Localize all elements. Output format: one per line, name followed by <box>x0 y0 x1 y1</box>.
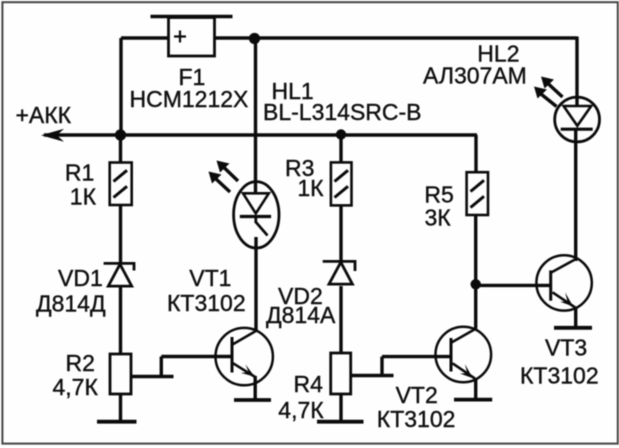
wire R4 to ground <box>339 394 342 421</box>
wire +AKK bus <box>44 133 477 136</box>
svg-text:VD1: VD1 <box>58 265 103 291</box>
svg-text:VT3: VT3 <box>545 335 587 361</box>
wire VT2 emitter to ground <box>474 378 477 398</box>
resistor R3 hatch marks <box>335 170 349 197</box>
fuse F1 body rectangle <box>169 18 215 57</box>
ground under R2 <box>97 420 137 424</box>
wire VD2 to R4 <box>339 286 342 353</box>
resistor R5 hatch marks <box>471 180 485 207</box>
wire F1 right lead to top-right corner <box>215 36 577 39</box>
node: junction bus / R3 <box>336 129 346 139</box>
wire R4 tap stub <box>380 357 383 376</box>
LED HL1 emission arrow 1 <box>209 172 231 193</box>
svg-text:КТ3102: КТ3102 <box>520 363 599 389</box>
LED HL1 ellipse envelope <box>234 182 279 248</box>
wire junction to HL1 top <box>254 38 257 194</box>
transistor VT2 base bar <box>450 338 453 372</box>
wire R4 tap horizontal <box>351 374 394 377</box>
wire F1 left vertical to bus <box>119 38 122 135</box>
svg-text:1К: 1К <box>297 175 324 201</box>
svg-text:КТ3102: КТ3102 <box>377 406 456 432</box>
wire R2 to ground <box>119 394 122 421</box>
svg-text:Д814Д: Д814Д <box>36 291 106 317</box>
wire bus corner down to R5 <box>474 135 477 172</box>
ground under R4 <box>317 420 364 424</box>
zener diode VD1 cathode bar with tick <box>104 263 134 270</box>
LED HL2 emission arrow 1 <box>534 87 557 107</box>
node: junction bus / R1 <box>115 129 126 140</box>
transistor VT1 emitter diagonal with arrow <box>232 362 256 377</box>
wire to VT2 base <box>382 355 451 358</box>
LED HL1 cathode bar <box>240 215 271 218</box>
LED HL2 triangle <box>564 106 592 126</box>
wire to VT1 base <box>161 355 232 358</box>
transistor VT3 base bar <box>549 270 552 300</box>
svg-text:Д814А: Д814А <box>266 302 336 328</box>
wire R2 tap horizontal <box>131 375 174 378</box>
resistor R3 body <box>331 162 352 205</box>
transistor VT2 collector diagonal <box>452 328 478 343</box>
svg-text:+АКК: +АКК <box>16 102 72 128</box>
zener diode VD2 triangle <box>329 262 352 284</box>
wire R3 to VD2 <box>339 205 342 262</box>
LED HL2 cathode bar <box>561 128 593 131</box>
node A: junction R5 / VT2 collector / VT3 base <box>471 279 481 289</box>
wire node A to VT3 base <box>476 284 551 287</box>
wire VT3 emitter to ground <box>574 307 577 327</box>
transistor VT2 emitter diagonal with arrow <box>453 363 476 378</box>
fuse F1 plus sign <box>174 31 186 43</box>
wire R5 to node A <box>474 215 477 286</box>
svg-text:R4: R4 <box>294 371 324 397</box>
wire VT1 emitter to ground <box>253 376 256 399</box>
resistor R1 hatch marks <box>114 170 128 197</box>
wire R2 tap stub <box>160 357 163 377</box>
resistor R4 body (trimmer) <box>331 353 351 394</box>
transistor VT2 circle <box>436 327 492 383</box>
wire bus to R1 <box>119 135 122 163</box>
resistor R1 body <box>110 163 132 206</box>
zener diode VD2 cathode bar with tick <box>323 261 355 271</box>
wire F1 left lead <box>121 36 168 39</box>
svg-text:4,7К: 4,7К <box>278 397 324 423</box>
svg-text:VT2: VT2 <box>396 382 438 408</box>
zener diode VD1 triangle <box>108 264 131 286</box>
fuse F1 battery-holder symbol: top plate bar <box>151 15 233 19</box>
node: junction at F1 output <box>249 33 260 44</box>
ground under VT1 <box>234 398 271 402</box>
svg-text:КТ3102: КТ3102 <box>167 290 246 316</box>
transistor VT1 collector diagonal <box>233 330 258 345</box>
transistor VT3 emitter diagonal with arrow <box>553 292 576 307</box>
svg-text:BL-L314SRC-B: BL-L314SRC-B <box>263 99 422 125</box>
LED HL1 cathode stub and tail <box>256 217 268 236</box>
wire VD1 to R2 <box>119 286 122 354</box>
svg-text:АЛ307АМ: АЛ307АМ <box>423 63 527 89</box>
ground under VT2 <box>454 398 492 402</box>
resistor R2 body (trimmer) <box>110 354 131 394</box>
svg-text:4,7К: 4,7К <box>53 374 99 400</box>
transistor VT1 circle <box>216 328 273 385</box>
LED HL2 emission arrow 2 <box>541 77 563 98</box>
LED HL1 emission arrow 2 <box>217 161 239 182</box>
transistor VT3 circle <box>536 255 591 310</box>
resistor R5 body <box>467 172 488 215</box>
svg-text:R2: R2 <box>66 350 95 376</box>
wire top-right vertical into HL2 <box>575 37 578 107</box>
wire R1 to VD1 <box>119 205 122 262</box>
net +AKK arrow head <box>41 129 64 142</box>
wire node A to VT2 collector <box>474 284 477 328</box>
transistor VT1 base bar <box>231 337 234 373</box>
svg-text:HCM1212X: HCM1212X <box>130 86 249 112</box>
ground under VT3 <box>554 326 592 330</box>
LED HL2 circle envelope <box>555 97 600 142</box>
wire bus to R3 <box>339 135 342 163</box>
svg-text:VT1: VT1 <box>189 265 231 291</box>
svg-text:3К: 3К <box>425 204 452 230</box>
wire HL1 cathode to VT1 collector <box>254 237 257 331</box>
wire HL2 cathode to VT3 collector <box>574 130 577 261</box>
LED HL1 triangle <box>243 193 269 213</box>
transistor VT3 collector diagonal <box>551 259 577 273</box>
svg-text:1К: 1К <box>70 184 97 210</box>
svg-text:R1: R1 <box>65 160 94 186</box>
